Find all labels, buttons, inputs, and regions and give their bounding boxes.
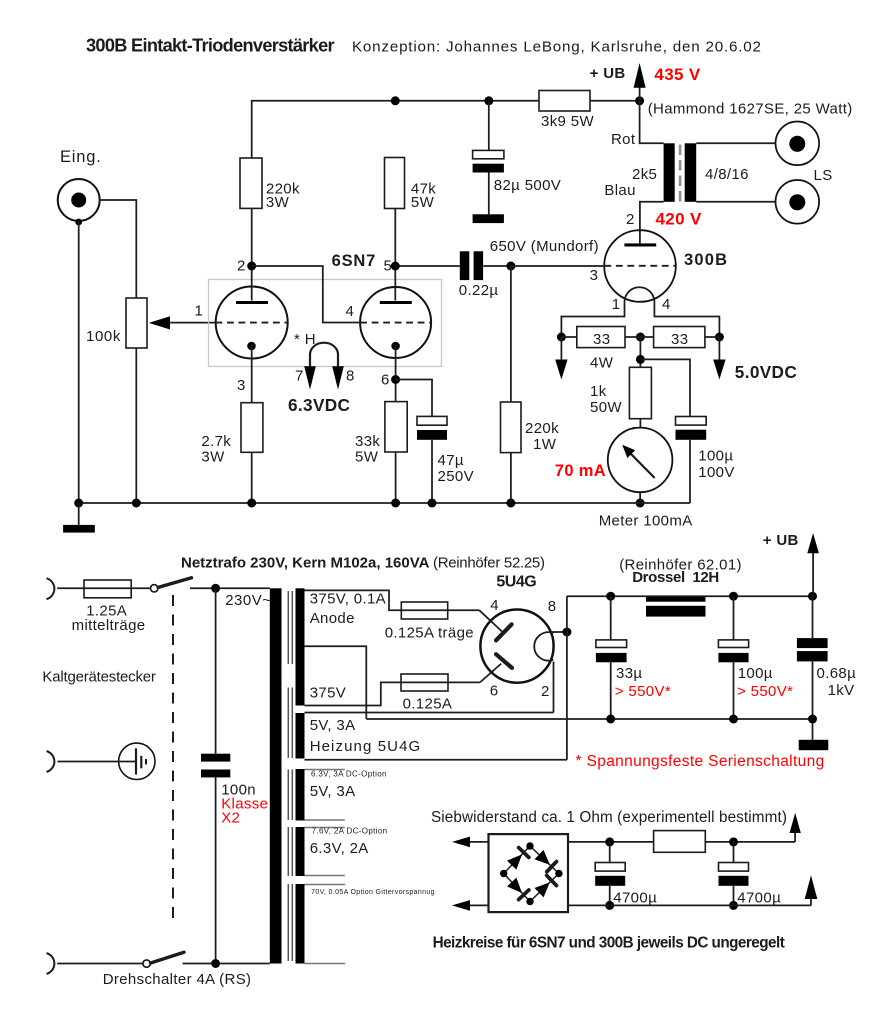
tube triode2 plate bar [380, 301, 412, 304]
wire B+ rail [567, 595, 813, 597]
label 5U4G [496, 574, 536, 591]
switch blade top [158, 578, 191, 588]
6SN7 outline box [209, 280, 442, 367]
label Heizkreise [433, 935, 785, 952]
wire fuse to 5U4G pin4 [448, 610, 502, 631]
wire PE to earth circle [58, 761, 136, 763]
node ground 2.7k [247, 499, 256, 508]
label 3k9 5W [541, 113, 594, 130]
node 47k top [391, 96, 400, 105]
capacitor 100u filter [718, 640, 748, 662]
node B+ out [808, 592, 817, 601]
wire center to 100u [640, 359, 690, 416]
svg-text:Heizung 5U4G: Heizung 5U4G [310, 738, 422, 755]
label Eing. [60, 148, 102, 166]
wire filament left leg [561, 301, 624, 337]
wire cathode1 to 2.7k [251, 345, 253, 403]
resistor 3k9 5W [539, 91, 590, 112]
svg-text:* H: * H [294, 331, 316, 348]
resistor 2.7k 3W [241, 403, 263, 453]
svg-text:420 V: 420 V [656, 210, 702, 229]
wire fuse to 5U4G pin6 [448, 664, 501, 683]
label + UB psu [763, 532, 799, 549]
label 1.25A mitteltraege [72, 603, 146, 635]
label Anode [310, 610, 355, 627]
wire switch to trafo [190, 587, 270, 589]
wire PSU ground rail [366, 718, 812, 720]
svg-text:4700µ: 4700µ [613, 890, 657, 907]
svg-text:4W: 4W [590, 355, 614, 372]
svg-text:7.6V, 2A DC-Option: 7.6V, 2A DC-Option [312, 827, 388, 836]
svg-text:100µ: 100µ [698, 448, 733, 465]
wire 5V top tap pin2 [305, 712, 554, 714]
wire AC in top arrow [452, 837, 489, 848]
node input jack bottom [75, 219, 82, 226]
label 82u 500V [494, 177, 561, 194]
resistor 33 right [654, 327, 705, 349]
wire coupling plate1 to grid2 [252, 266, 361, 323]
label pin 6 6SN7 [381, 372, 390, 389]
wire meter to ground rail [639, 492, 641, 503]
label X2 red [221, 810, 240, 827]
label 100u 550V red [737, 683, 793, 700]
svg-text:1: 1 [612, 296, 621, 313]
wire HV bottom tap to fuse [305, 682, 402, 705]
node grid 300B [506, 262, 515, 271]
svg-text:650V (Mundorf): 650V (Mundorf) [490, 238, 599, 255]
node +UB 435V [635, 96, 644, 105]
tube 300B filament arc [625, 287, 655, 301]
label 6.3V 2A [310, 840, 369, 857]
svg-text:Heizkreise für 6SN7 und 300B j: Heizkreise für 6SN7 und 300B jeweils DC … [433, 935, 785, 952]
label * H [294, 331, 316, 348]
wire pin8 to node [551, 631, 567, 633]
svg-text:3k9 5W: 3k9 5W [541, 113, 594, 130]
tube 300B anode plate bar [624, 243, 656, 246]
arrow down 5VDC left [555, 337, 567, 380]
mains terminal PE [47, 751, 55, 772]
capacitor 82u 500V [473, 150, 504, 172]
wire terminal N to switch [57, 963, 143, 965]
transformer secondary 6.3V bar [296, 827, 305, 876]
svg-text:250V: 250V [438, 468, 474, 485]
svg-text:70V, 0.05A Option Gittervorspa: 70V, 0.05A Option Gittervorspannug [311, 889, 435, 896]
svg-text:3: 3 [237, 377, 246, 394]
label pin 2 6SN7 [237, 258, 246, 275]
svg-text:33k: 33k [355, 433, 380, 450]
bridge rectifier box [489, 834, 569, 912]
svg-text:6.3V, 3A DC-Option: 6.3V, 3A DC-Option [311, 770, 387, 779]
node ground left [74, 499, 83, 508]
svg-text:6.3V, 2A: 6.3V, 2A [310, 840, 369, 857]
wire 47k to plate2 [394, 209, 396, 301]
mains terminal N [47, 953, 55, 974]
label Rot [611, 131, 636, 148]
svg-text:Rot: Rot [611, 131, 636, 148]
bridge diode D1 [507, 848, 529, 870]
label 435 V red [654, 65, 700, 84]
svg-text:Drehschalter 4A (RS): Drehschalter 4A (RS) [103, 971, 252, 988]
svg-text:5W: 5W [355, 449, 379, 466]
node ground 47u [428, 499, 437, 508]
wire rail to 82u [488, 101, 490, 151]
label 1kV [828, 682, 855, 699]
wire bridge + to resistor [568, 841, 654, 843]
wire 33k to ground [395, 452, 397, 503]
label 650V Mundorf [490, 238, 599, 255]
label pin 4 6SN7 [346, 303, 355, 320]
mains terminal L [47, 578, 55, 599]
label 100u filter [738, 665, 773, 682]
power arrow heater out top [790, 813, 801, 842]
wire 4700u1 top [609, 842, 611, 863]
wire pot bottom to ground [135, 348, 137, 503]
svg-text:4700µ: 4700µ [737, 890, 781, 907]
node 33 center [636, 333, 645, 342]
protective earth symbol [119, 743, 155, 779]
svg-text:mittelträge: mittelträge [72, 617, 146, 634]
label 5.0VDC [735, 362, 797, 382]
label 47u 250V [438, 452, 474, 485]
svg-text:0.125A träge: 0.125A träge [385, 625, 474, 642]
wire bridge - rail [568, 904, 811, 906]
label Kaltgeraetestecker [42, 669, 156, 686]
svg-text:+ UB: + UB [590, 65, 626, 82]
wire 0.68u top [812, 596, 814, 638]
power arrow heater out bottom [805, 875, 818, 905]
node plate1 pin2 [247, 262, 256, 271]
svg-text:47µ: 47µ [438, 452, 464, 469]
tube 300B envelope [604, 230, 676, 302]
svg-text:100k: 100k [86, 328, 121, 345]
label Hammond [648, 101, 853, 118]
svg-text:Drossel 12H: Drossel 12H [632, 569, 719, 586]
label 6SN7 [332, 252, 376, 270]
wire HV center tap to ground rail [305, 646, 367, 719]
svg-text:0.22µ: 0.22µ [459, 282, 499, 299]
wire pin8 up to B+ rail [566, 596, 568, 632]
wire 5Vopt taps [305, 770, 345, 821]
svg-text:6: 6 [381, 372, 390, 389]
label 7.6V 2A DC-Option [312, 827, 388, 836]
label 4700u 2 [737, 890, 781, 907]
wire OPT primary bottom to 300B anode [640, 202, 664, 244]
label 70V option [311, 889, 435, 896]
capacitor 0.22u plates [460, 251, 483, 280]
node plate2 pin5 [391, 262, 400, 271]
label LS [814, 167, 833, 184]
svg-text:4: 4 [662, 296, 671, 313]
svg-text:82µ 500V: 82µ 500V [494, 177, 561, 194]
resistor Sieb 1 Ohm [654, 831, 706, 853]
svg-text:2k5: 2k5 [632, 166, 657, 183]
wire 1k to meter [639, 419, 641, 428]
wire coupling cap to grid node [483, 265, 511, 267]
potentiometer 100k [126, 298, 147, 348]
svg-text:Kaltgerätestecker: Kaltgerätestecker [42, 669, 156, 686]
tube triode1 grid dashed [216, 322, 288, 324]
label pin 3 6SN7 [237, 377, 246, 394]
tube 5U4G anode electrodes [496, 624, 512, 668]
svg-text:5: 5 [384, 258, 393, 275]
svg-text:Eing.: Eing. [60, 148, 102, 166]
svg-text:3W: 3W [201, 449, 225, 466]
label 0.125A [403, 696, 453, 713]
bridge diode D2 [535, 850, 557, 872]
label Netztrafo [181, 555, 430, 572]
transformer OPT secondary winding bar [685, 143, 697, 202]
label pin 8 5U4G [548, 598, 557, 615]
label 1k 50W [590, 383, 622, 416]
svg-text:375V, 0.1A: 375V, 0.1A [310, 591, 386, 608]
node B+ 33u [606, 592, 615, 601]
svg-text:1: 1 [195, 303, 204, 320]
svg-text:100µ: 100µ [738, 665, 773, 682]
wire grid node to 300B grid [511, 265, 605, 267]
tube 5U4G envelope [480, 610, 553, 683]
wire 0.68u bottom [812, 661, 814, 739]
tube triode1 plate bar [236, 301, 268, 304]
label 4700u 1 [613, 890, 657, 907]
label pin 1 6SN7 [195, 303, 204, 320]
wire 220k to plate1 [251, 208, 253, 300]
svg-text:1k: 1k [590, 383, 607, 400]
resistor 220k 3W [240, 158, 262, 208]
heater arc [310, 343, 338, 367]
svg-text:0.68µ: 0.68µ [817, 665, 857, 682]
node 33 left [557, 333, 566, 342]
label 33u [616, 665, 642, 682]
svg-text:5V, 3A: 5V, 3A [310, 783, 356, 800]
wire resistor to out [705, 841, 795, 843]
label pin 2 5U4G [541, 683, 550, 700]
svg-text:2: 2 [626, 211, 635, 228]
svg-text:6SN7: 6SN7 [332, 252, 376, 270]
wire UB to OPT primary top [640, 101, 664, 144]
capacitor 0.68u 1kV [797, 638, 828, 661]
wire plate2 to coupling cap [395, 265, 460, 267]
speaker jack LS upper [776, 122, 820, 166]
wire OPT secondary bottom to LS jack [696, 201, 776, 203]
svg-text:70 mA: 70 mA [555, 462, 606, 480]
wire 33u top [610, 596, 612, 640]
label 4W [590, 355, 614, 372]
label pin 2 300B [626, 211, 635, 228]
node gnd 0.68u [808, 715, 817, 724]
fuse 0.125A [401, 674, 448, 691]
wire 2.7k to ground [251, 452, 253, 503]
svg-text:0.125A: 0.125A [403, 696, 453, 713]
transformer secondary 70V bar [296, 884, 305, 964]
wire top rail left [252, 101, 539, 158]
svg-text:Anode: Anode [310, 610, 355, 627]
svg-text:4/8/16: 4/8/16 [705, 166, 749, 183]
label Meter 100mA [599, 513, 693, 530]
wire OPT secondary top to LS jack [696, 142, 776, 144]
svg-text:3W: 3W [266, 194, 290, 211]
node 82u top [484, 96, 493, 105]
wire input jack to pot top [100, 200, 136, 298]
wire X2 top [215, 588, 217, 753]
svg-text:6: 6 [490, 683, 499, 700]
bridge diamond wires [504, 846, 559, 902]
label pin 1 300B [612, 296, 621, 313]
label 33u 550V red [615, 683, 671, 700]
tube 6SN7 triode2 envelope [360, 287, 431, 358]
wire 33u bottom [610, 662, 612, 719]
chassis bar 0.68u [799, 740, 829, 750]
label Drossel 12H [632, 569, 719, 586]
label pin 3 300B [590, 267, 599, 284]
node 4700u 1 top [605, 837, 614, 846]
node gnd 33u [606, 715, 615, 724]
node X2 bottom [211, 959, 220, 968]
wire 4700u2 bottom [733, 886, 735, 906]
chassis bar 82u [473, 214, 504, 223]
wire grid node down to 220k 1W [510, 266, 512, 402]
subtitle konzeption text [352, 39, 762, 56]
svg-text:2: 2 [541, 683, 550, 700]
transformer OPT core [679, 145, 682, 202]
svg-text:5W: 5W [411, 194, 435, 211]
label 420 V red [656, 210, 702, 229]
svg-text:> 550V*: > 550V* [615, 683, 671, 700]
svg-text:8: 8 [548, 598, 557, 615]
label Drehschalter [103, 971, 252, 988]
choke Drossel 12H [646, 597, 706, 617]
bridge diode D3 [507, 878, 529, 900]
tube triode1 cathode dot [247, 342, 256, 351]
label pin 4 300B [662, 296, 671, 313]
wire input jack to ground [78, 222, 80, 503]
wire 5V bottom tap pin8 [305, 759, 567, 761]
resistor 33 4W left [577, 327, 625, 349]
svg-text:33: 33 [593, 331, 610, 348]
svg-text:230V~: 230V~ [225, 592, 271, 609]
wire top rail right segment [590, 100, 640, 102]
label 0.22u [459, 282, 499, 299]
svg-text:X2: X2 [221, 810, 240, 827]
heater arrow 7 [304, 366, 316, 389]
node B+ 100u [729, 592, 738, 601]
wire pin2 down [553, 662, 555, 713]
tube triode2 cathode dot [391, 342, 400, 351]
svg-text:* Spannungsfeste Serienschaltu: * Spannungsfeste Serienschaltung [576, 753, 825, 770]
svg-text:5.0VDC: 5.0VDC [735, 362, 797, 382]
label Blau [604, 182, 635, 199]
svg-text:> 550V*: > 550V* [737, 683, 793, 700]
svg-text:4: 4 [490, 597, 499, 614]
resistor 47k 5W [385, 158, 405, 209]
label Reinhoefer 62.01 [619, 557, 742, 574]
power +UB arrow top [634, 63, 646, 101]
svg-text:50W: 50W [590, 399, 622, 416]
node pin8 [562, 628, 571, 637]
wire 47u to ground [431, 440, 433, 503]
transformer secondary HV bar [296, 588, 305, 705]
svg-text:2: 2 [237, 258, 246, 275]
transformer core lines [288, 591, 292, 961]
label 4/8/16 [705, 166, 749, 183]
title text [86, 36, 335, 56]
svg-text:5V, 3A: 5V, 3A [310, 717, 356, 734]
ground symbol [63, 503, 95, 533]
label pin 7 [295, 368, 304, 385]
svg-text:8: 8 [346, 368, 355, 385]
label 375V [310, 685, 346, 702]
wire node6 to 47u cap [396, 380, 432, 417]
resistor 1k 50W [629, 367, 651, 418]
tube 6SN7 triode1 envelope [216, 287, 288, 359]
capacitor 4700u 2 [719, 863, 749, 886]
svg-text:(Reinhöfer 52.25): (Reinhöfer 52.25) [433, 555, 545, 572]
svg-text:2.7k: 2.7k [201, 433, 231, 450]
svg-text:3: 3 [590, 267, 599, 284]
wire 70V taps [305, 885, 346, 964]
capacitor 4700u 1 [595, 863, 625, 886]
capacitor 33u [596, 640, 627, 662]
svg-text:LS: LS [814, 167, 833, 184]
label 0.125A traege [385, 625, 474, 642]
wire pin8 down to 5V tap [566, 632, 568, 760]
bridge node bottom [526, 898, 533, 905]
switch blade bottom [151, 952, 184, 963]
wire X2 bottom [215, 777, 217, 963]
transformer secondary 5V bar [296, 713, 305, 759]
svg-text:1kV: 1kV [828, 682, 855, 699]
label 5V 3A opt [310, 783, 356, 800]
label 100n [221, 782, 256, 799]
pot wiper arrow to grid1 [149, 316, 216, 329]
svg-text:Konzeption: Johannes LeBong, K: Konzeption: Johannes LeBong, Karlsruhe, … [352, 39, 762, 56]
label 220k 3W [266, 181, 300, 212]
label 230V~ [225, 592, 271, 609]
wire 100u to ground rail [689, 440, 691, 503]
bridge node top [526, 842, 533, 849]
svg-text:300B: 300B [684, 251, 728, 269]
transformer primary bar [270, 588, 282, 963]
node 4700u2 gnd [729, 901, 738, 910]
svg-text:Blau: Blau [604, 182, 635, 199]
node 33 right [715, 333, 724, 342]
label 6.3VDC [288, 395, 350, 415]
label 6.3V 3A DC-Option [311, 770, 387, 779]
svg-text:5U4G: 5U4G [496, 574, 536, 591]
wire 33 row [561, 336, 719, 338]
label Heizung 5U4G [310, 738, 422, 755]
svg-text:220k: 220k [525, 420, 559, 437]
label 375V 0.1A [310, 591, 386, 608]
label 33k 5W [355, 433, 380, 466]
node ground pot [132, 499, 141, 508]
input RCA jack [58, 179, 100, 221]
svg-text:300B Eintakt-Triodenverstärker: 300B Eintakt-Triodenverstärker [86, 36, 335, 56]
label 0.68u [817, 665, 857, 682]
svg-text:435 V: 435 V [654, 65, 700, 84]
wire center to 1k [639, 337, 641, 367]
capacitor 47u 250V [417, 416, 447, 439]
switch contact bottom [143, 960, 150, 967]
node 4700u1 gnd [605, 901, 614, 910]
svg-text:Netztrafo 230V, Kern M102a, 16: Netztrafo 230V, Kern M102a, 160VA [181, 555, 430, 572]
wire 220k 1W to ground rail [510, 453, 512, 503]
label Spannungsfeste red [576, 753, 825, 770]
node meter ground [636, 499, 645, 508]
meter 100mA [608, 428, 673, 493]
label 2k5 [632, 166, 657, 183]
capacitor X2 100n [201, 754, 230, 778]
svg-text:33: 33 [671, 331, 688, 348]
